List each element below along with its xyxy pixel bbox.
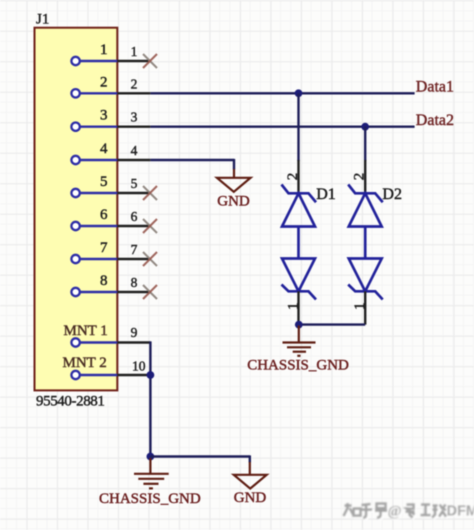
svg-text:6: 6 [100, 207, 108, 223]
wire from pin 9 down [149, 341, 151, 456]
power port CHASSIS_GND top [247, 326, 349, 374]
pin 4 of J1 [71, 141, 150, 164]
net label Data1 [416, 79, 454, 96]
svg-text:6: 6 [131, 209, 138, 224]
junction on Data1 at D1 [295, 89, 303, 97]
diode D2 pin 1 [352, 291, 368, 324]
junction on MNT2 net [147, 371, 155, 379]
junction on Data2 at D2 [361, 123, 369, 131]
pin 5 of J1 [71, 174, 150, 197]
svg-text:1: 1 [100, 42, 108, 58]
wire net Data2 from pin 3 [150, 125, 414, 127]
svg-text:4: 4 [131, 143, 138, 158]
power port CHASSIS_GND bottom [99, 458, 201, 507]
designator J1 [36, 12, 49, 28]
no-ERC cross on pin 8 [143, 285, 157, 299]
svg-text:Data1: Data1 [416, 79, 454, 96]
pin 3 of J1 [71, 108, 150, 131]
TVS diode D1 [282, 185, 317, 300]
designator D2 [382, 186, 402, 203]
diode D1 pin 1 [285, 291, 301, 324]
diode D1 pin 2 [285, 160, 301, 193]
wire net Data1 from pin 2 [150, 92, 414, 94]
junction at D1 bottom [295, 321, 303, 329]
svg-text:GND: GND [234, 490, 267, 506]
svg-text:3: 3 [100, 108, 108, 124]
wire from bottom junction to GND [150, 455, 249, 462]
svg-text:8: 8 [100, 273, 108, 289]
svg-text:10: 10 [132, 358, 146, 373]
junction at chassis ground bottom [147, 453, 155, 461]
svg-text:J1: J1 [36, 12, 49, 28]
svg-text:2: 2 [100, 74, 108, 90]
svg-text:3: 3 [131, 110, 138, 125]
TVS diode D2 [348, 185, 383, 300]
no-ERC cross on pin 5 [143, 186, 157, 200]
svg-text:95540-2881: 95540-2881 [36, 394, 105, 410]
net label Data2 [416, 112, 454, 129]
svg-text:GND: GND [217, 194, 250, 210]
svg-text:MNT 2: MNT 2 [63, 355, 107, 371]
svg-text:MNT 1: MNT 1 [64, 323, 108, 339]
no-ERC cross on pin 6 [143, 219, 157, 233]
pin 9 MNT 1 of J1 [64, 323, 151, 347]
pin 7 of J1 [71, 240, 150, 263]
diode D2 pin 2 [352, 160, 368, 193]
svg-text:9: 9 [131, 325, 138, 340]
svg-text:1: 1 [352, 303, 368, 311]
pin 2 of J1 [71, 74, 150, 97]
pin 10 MNT 2 of J1 [63, 355, 151, 379]
svg-text:5: 5 [100, 174, 108, 190]
wire joining D1 and D2 bottoms [299, 323, 366, 325]
svg-text:Data2: Data2 [416, 112, 454, 129]
svg-text:CHASSIS_GND: CHASSIS_GND [247, 357, 349, 373]
svg-text:CHASSIS_GND: CHASSIS_GND [99, 491, 201, 507]
svg-text:8: 8 [131, 275, 138, 290]
designator D1 [316, 186, 336, 203]
svg-text:2: 2 [131, 76, 138, 91]
svg-text:D2: D2 [382, 186, 402, 203]
svg-text:D1: D1 [316, 186, 336, 203]
wire from Data1 down to D1 [297, 93, 299, 161]
value label 95540-2881 [36, 394, 105, 410]
svg-text:2: 2 [285, 173, 301, 181]
svg-text:1: 1 [131, 44, 138, 59]
power port GND at pin 4 [217, 169, 251, 210]
svg-text:1: 1 [285, 303, 301, 311]
wire from Data2 down to D2 [364, 127, 366, 161]
pin 1 of J1 [71, 42, 150, 65]
no-ERC cross on pin 7 [143, 252, 157, 266]
power port GND bottom [234, 462, 267, 506]
no-ERC cross on pin 1 [143, 54, 157, 68]
pin 8 of J1 [71, 273, 150, 296]
wire from pin 4 to GND [150, 159, 234, 170]
svg-text:4: 4 [100, 141, 108, 157]
svg-text:7: 7 [100, 240, 108, 256]
svg-text:2: 2 [352, 173, 368, 181]
connector J1 body [35, 28, 118, 391]
pin 6 of J1 [71, 207, 150, 230]
svg-text:7: 7 [131, 242, 138, 257]
svg-text:5: 5 [131, 176, 138, 191]
